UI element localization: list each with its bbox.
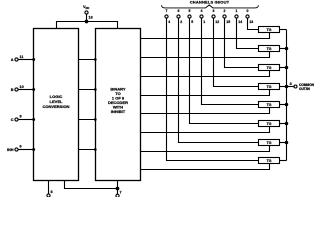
channel 5 terminal pin 5 — [188, 15, 259, 124]
junction dot TG2 — [285, 47, 287, 49]
svg-text:10: 10 — [20, 85, 24, 89]
transmission gate TG7 — [259, 140, 280, 146]
svg-text:INH: INH — [7, 148, 14, 152]
junction A at U2 — [95, 59, 97, 61]
svg-text:12: 12 — [215, 20, 219, 24]
transmission gate TG8 — [259, 158, 280, 164]
svg-text:TG: TG — [267, 47, 272, 51]
channel 0 terminal pin 13 — [246, 15, 259, 30]
TG8 output wire — [280, 160, 287, 162]
channel 7 terminal pin 4 — [165, 15, 259, 161]
label COMMON OUT/IN — [299, 83, 315, 91]
svg-text:16: 16 — [89, 16, 93, 20]
TG1 output wire — [280, 29, 287, 31]
transmission gate TG2 — [259, 46, 280, 52]
svg-text:11: 11 — [20, 55, 24, 59]
junction C at U1 — [33, 119, 35, 121]
common out terminal pin 3 — [294, 85, 297, 88]
decoder output wire 0 — [141, 33, 270, 39]
junction A at U1 — [33, 59, 35, 61]
svg-text:TG: TG — [267, 66, 272, 70]
transmission gate TG4 — [259, 84, 280, 90]
svg-text:15: 15 — [226, 20, 230, 24]
svg-text:TG: TG — [267, 122, 272, 126]
common out wire — [287, 86, 295, 88]
transmission gate TG1 — [259, 27, 280, 33]
VDD junction dot — [85, 20, 88, 23]
junction B at U2 — [95, 89, 97, 91]
svg-text:CONVERSION: CONVERSION — [43, 104, 70, 109]
logic level conversion block U1 — [34, 29, 79, 181]
VSS wire pin 8 — [48, 181, 50, 194]
svg-text:3: 3 — [290, 82, 292, 86]
VEE junction dot — [116, 187, 119, 190]
svg-text:C: C — [11, 118, 14, 122]
binary 1-of-8 decoder block U2 — [96, 29, 141, 181]
junction C at U2 — [95, 119, 97, 121]
svg-text:8: 8 — [51, 190, 53, 194]
svg-text:A: A — [11, 58, 14, 62]
junction INH at U2 — [95, 149, 97, 151]
decoder output wire 2 — [141, 71, 270, 77]
wire C rung — [79, 119, 96, 121]
channel 4 terminal pin 1 — [200, 15, 259, 105]
VDD rail wire — [57, 22, 118, 29]
junction dot TG3 — [285, 66, 287, 68]
TG5 output wire — [280, 104, 287, 106]
channel 3 terminal pin 12 — [212, 15, 259, 87]
svg-text:TG: TG — [267, 159, 272, 163]
decoder output wire 1 — [141, 52, 270, 58]
label U1 text — [43, 94, 70, 109]
terminal INH pin 6 — [15, 148, 34, 151]
VEE terminal pin 7 — [116, 194, 119, 197]
svg-text:OUT/IN: OUT/IN — [299, 87, 310, 91]
junction dot TG6 — [285, 122, 287, 124]
svg-text:6: 6 — [178, 9, 180, 13]
decoder output wire 7 — [141, 164, 270, 170]
junction dot TG4 — [285, 85, 287, 87]
decoder output wire 5 — [141, 127, 270, 133]
channel 1 terminal pin 14 — [235, 15, 259, 49]
VDD terminal pin 16 — [85, 11, 88, 22]
TG3 output wire — [280, 67, 287, 69]
svg-text:2: 2 — [224, 9, 226, 13]
wire B rung — [79, 89, 96, 91]
svg-text:13: 13 — [249, 20, 253, 24]
decoder output wire 6 — [141, 146, 270, 152]
TG2 output wire — [280, 48, 287, 50]
VEE stub from U2 — [117, 181, 119, 195]
svg-text:TG: TG — [267, 28, 272, 32]
label U2 text — [108, 87, 128, 115]
transmission gate TG5 — [259, 102, 280, 108]
wire A rung — [79, 59, 96, 61]
svg-text:4: 4 — [201, 9, 203, 13]
svg-text:1: 1 — [203, 20, 205, 24]
transmission gate TG6 — [259, 121, 280, 127]
svg-text:9: 9 — [20, 115, 22, 119]
junction INH at U1 — [33, 149, 35, 151]
junction dot TG5 — [285, 103, 287, 105]
svg-text:2: 2 — [180, 20, 182, 24]
svg-text:5: 5 — [191, 20, 193, 24]
svg-text:INHIBIT: INHIBIT — [111, 109, 126, 114]
svg-text:6: 6 — [20, 145, 22, 149]
TG6 output wire — [280, 123, 287, 125]
channel 2 terminal pin 15 — [223, 15, 259, 68]
terminal C pin 9 — [15, 118, 34, 121]
terminal A pin 11 — [15, 58, 34, 61]
TG7 output wire — [280, 142, 287, 144]
svg-text:CHANNELS IN/OUT: CHANNELS IN/OUT — [190, 0, 230, 5]
terminal B pin 10 — [15, 88, 34, 91]
TG4 output wire — [280, 86, 287, 88]
wire INH rung — [79, 149, 96, 151]
svg-text:4: 4 — [168, 20, 170, 24]
junction dot TG7 — [285, 141, 287, 143]
svg-text:3: 3 — [213, 9, 215, 13]
svg-text:TG: TG — [267, 141, 272, 145]
decoder output wire 4 — [141, 108, 270, 114]
transmission gate TG3 — [259, 65, 280, 71]
svg-text:1: 1 — [236, 9, 238, 13]
svg-text:TG: TG — [267, 103, 272, 107]
common output bus wire — [286, 30, 288, 161]
svg-text:5: 5 — [189, 9, 191, 13]
decoder output wire 3 — [141, 90, 270, 96]
svg-text:0: 0 — [247, 9, 249, 13]
VEE wire from U1 — [65, 181, 118, 189]
svg-text:14: 14 — [238, 20, 242, 24]
channel 6 terminal pin 2 — [177, 15, 259, 143]
VSS terminal — [47, 194, 50, 197]
svg-text:7: 7 — [166, 9, 168, 13]
junction B at U1 — [33, 89, 35, 91]
svg-text:B: B — [11, 88, 14, 92]
svg-text:7: 7 — [120, 191, 122, 195]
brace channels in/out — [162, 5, 259, 8]
svg-text:TG: TG — [267, 85, 272, 89]
